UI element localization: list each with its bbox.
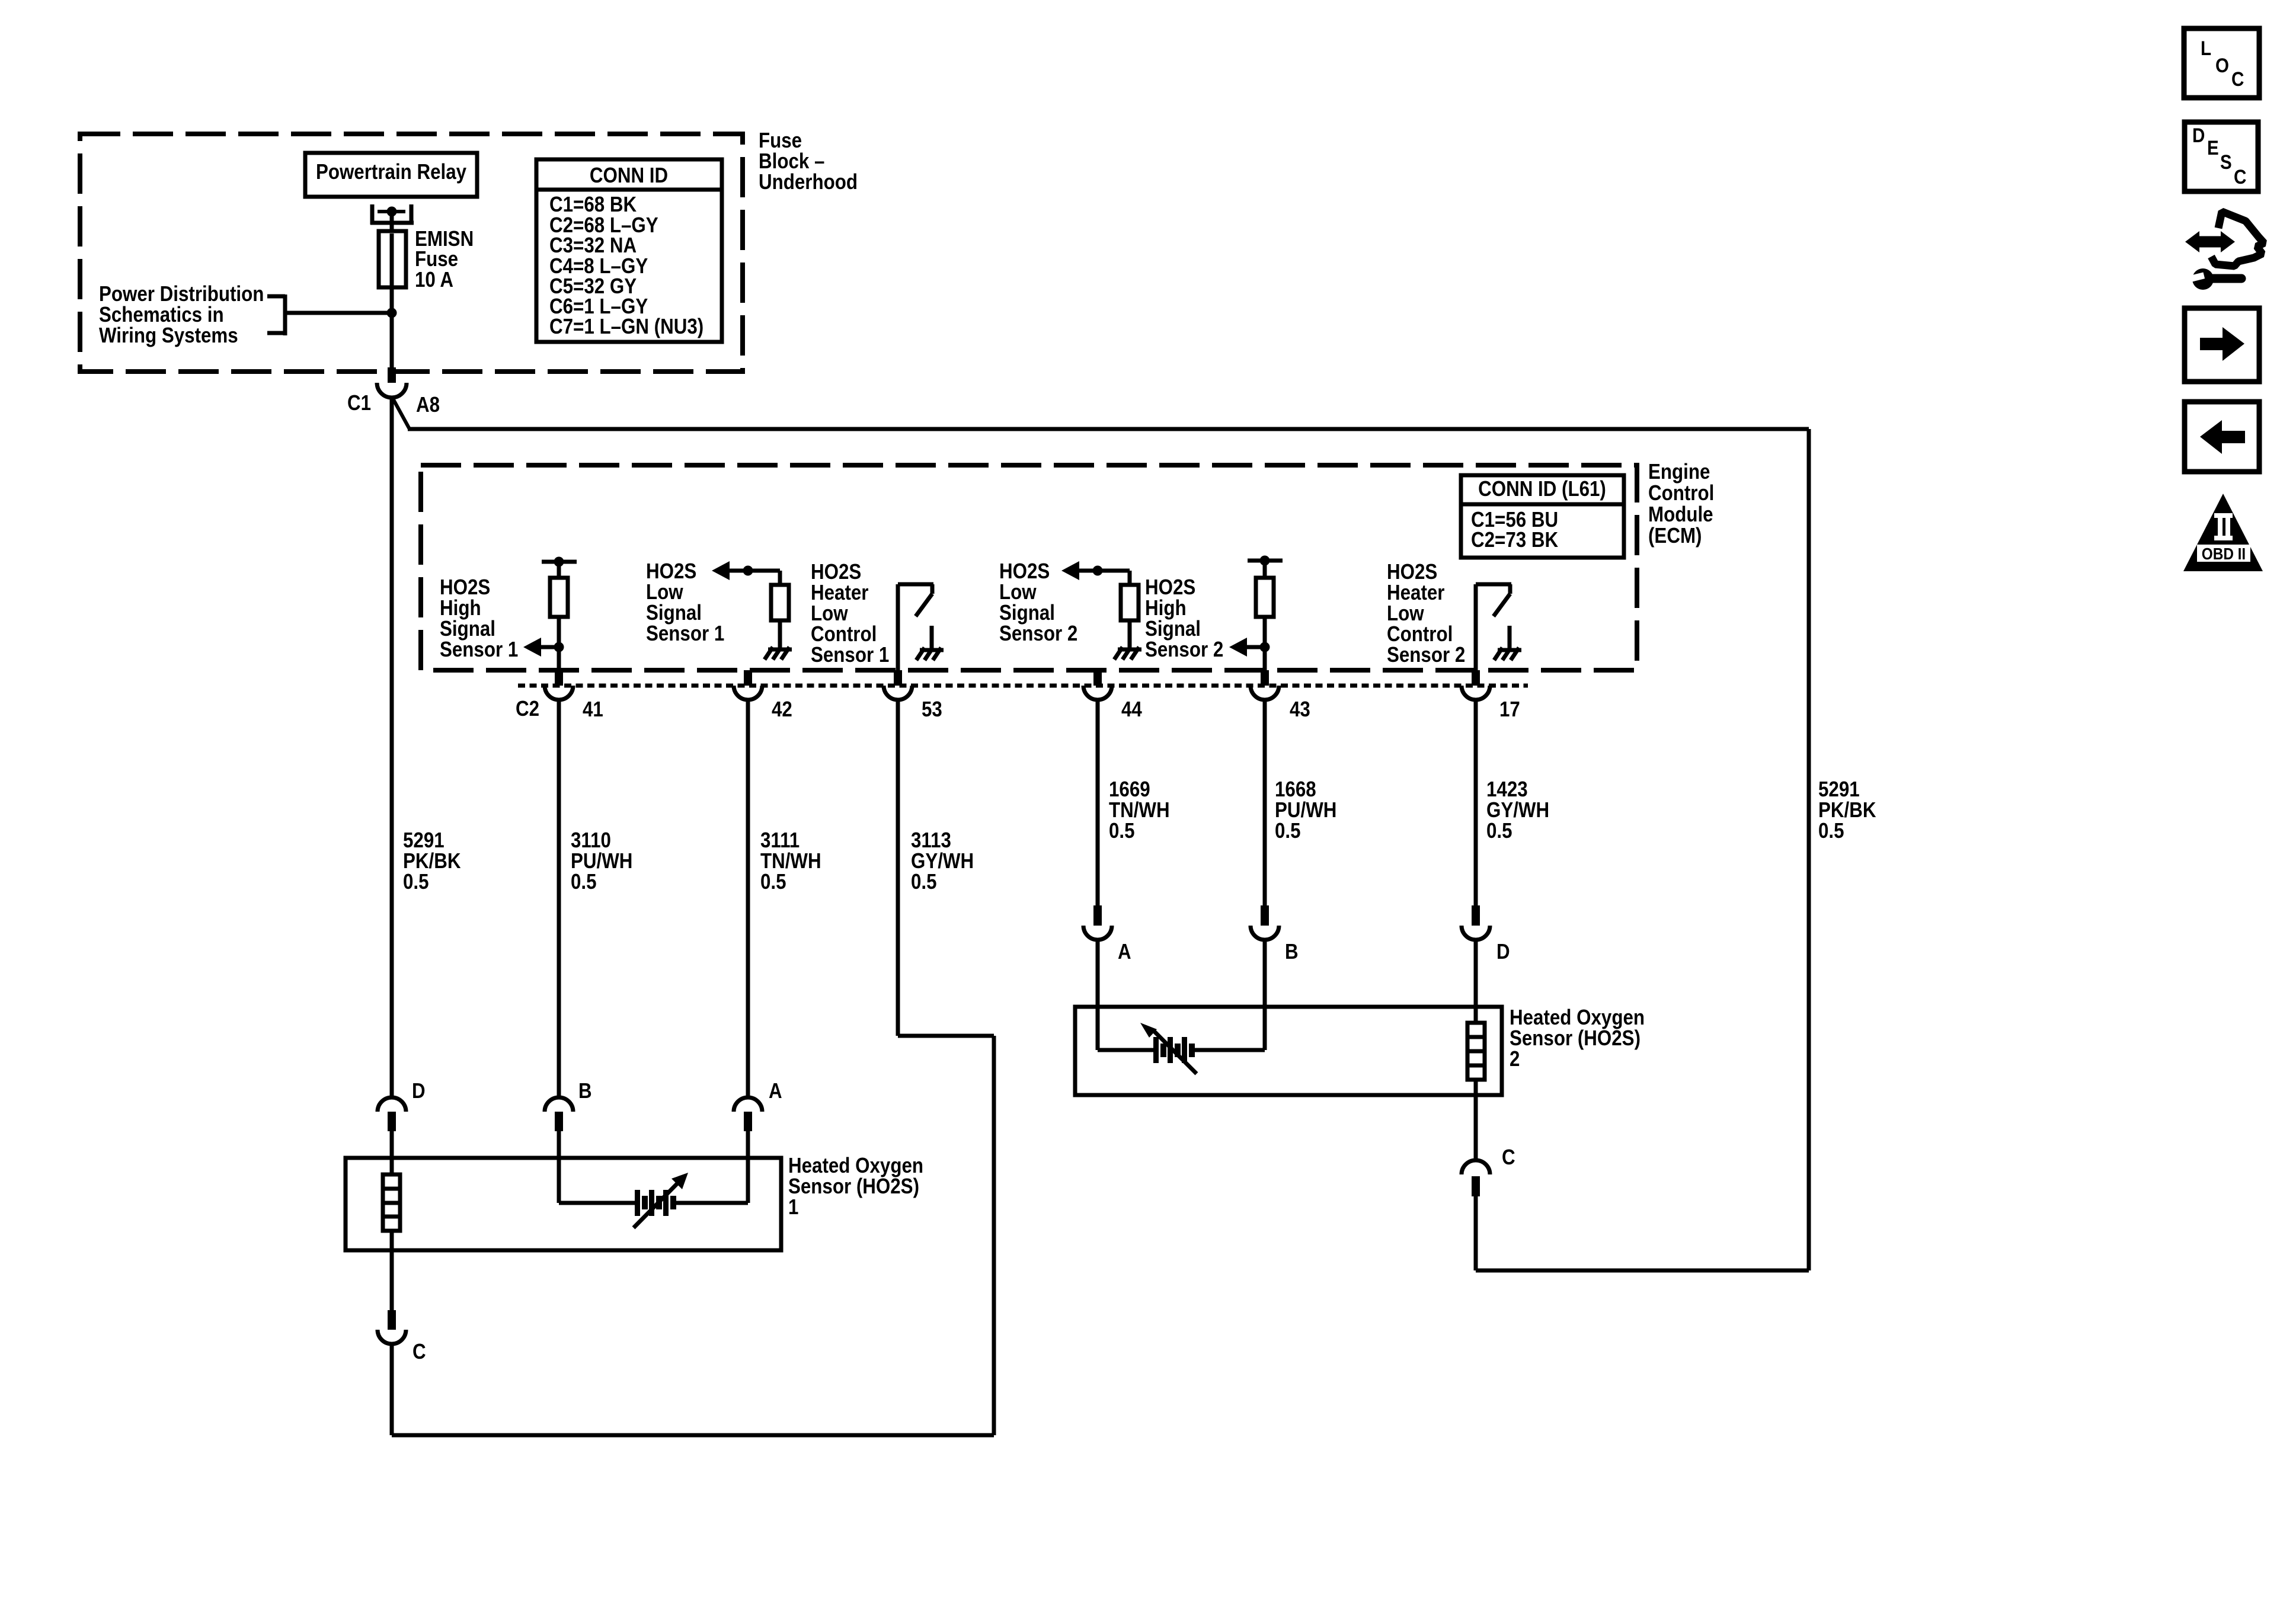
wire 3111 pin42 to connector A [746, 700, 750, 1097]
svg-text:OBD II: OBD II [2202, 545, 2246, 563]
svg-text:C: C [1502, 1145, 1515, 1169]
wire 5291 bottom right horizontal [1476, 1269, 1809, 1273]
label HO2S High Signal Sensor 2 [1145, 575, 1223, 661]
svg-text:C1: C1 [347, 391, 371, 415]
svg-text:D: D [412, 1078, 426, 1103]
svg-text:0.5: 0.5 [760, 869, 786, 894]
svg-text:Sensor 1: Sensor 1 [811, 642, 889, 667]
label HO2S Low Signal Sensor 2 [999, 559, 1077, 645]
ECM pin 42 connector [734, 670, 762, 700]
icon wrench with arrows [2185, 212, 2264, 290]
svg-text:Module: Module [1648, 502, 1713, 526]
wire 1423 pin17 to connector D [1474, 700, 1478, 907]
wire 5291 vertical to HO2S1 [390, 398, 394, 1097]
label Heated Oxygen Sensor (HO2S) 1 [788, 1153, 923, 1219]
label 1423 GY/WH 0.5 [1486, 777, 1549, 843]
wire 5291 top horizontal run [408, 427, 1809, 431]
connector B HO2S2 [1251, 905, 1279, 1007]
svg-text:L: L [2201, 37, 2211, 60]
svg-text:2: 2 [1510, 1046, 1520, 1071]
wire HO2S2 to connector C [1474, 1095, 1478, 1160]
svg-text:44: 44 [1121, 697, 1142, 721]
svg-text:Sensor (HO2S): Sensor (HO2S) [1510, 1026, 1641, 1050]
svg-text:Wiring Systems: Wiring Systems [99, 323, 238, 347]
wire 1669 pin44 to connector A [1096, 700, 1100, 907]
comp6 switch HO2S Heater Low Control Sensor 2 [1476, 584, 1511, 670]
svg-text:10 A: 10 A [415, 267, 453, 292]
heater element HO2S2 [1467, 1007, 1485, 1095]
ECM pin 53 connector [884, 670, 912, 700]
fuse block - underhood dashed box [80, 134, 743, 372]
svg-text:C: C [2234, 166, 2246, 188]
sensor element HO2S2 [1098, 1007, 1265, 1074]
ground comp2 [765, 647, 792, 660]
icon forward arrow box [2185, 308, 2259, 382]
ECM pin 41 connector [545, 670, 573, 700]
heater element HO2S1 [383, 1158, 400, 1250]
label HO2S High Signal Sensor 1 [440, 575, 518, 661]
svg-text:0.5: 0.5 [571, 869, 597, 894]
svg-text:Underhood: Underhood [759, 169, 858, 194]
svg-text:A: A [769, 1078, 782, 1103]
label Engine Control Module (ECM) [1648, 459, 1714, 548]
svg-text:CONN ID: CONN ID [590, 163, 668, 187]
svg-text:B: B [578, 1078, 592, 1103]
wire fuse to connector C1 [390, 287, 394, 369]
svg-text:A: A [1118, 939, 1131, 964]
svg-text:0.5: 0.5 [1109, 818, 1135, 843]
connector C HO2S2 [1462, 1160, 1490, 1270]
svg-text:1: 1 [788, 1195, 798, 1219]
relay pin bracket [370, 204, 414, 225]
svg-text:0.5: 0.5 [1275, 818, 1301, 843]
svg-text:42: 42 [772, 697, 792, 721]
icon LOC box [2184, 28, 2259, 98]
svg-text:Sensor 1: Sensor 1 [646, 621, 724, 645]
ECM pin 44 connector [1083, 670, 1112, 700]
connector C HO2S1 [378, 1310, 406, 1344]
connector D HO2S2 [1462, 905, 1490, 1007]
wire HO2S1 to connector C [390, 1250, 394, 1311]
junction dot [387, 308, 397, 318]
comp5 HO2S High Signal Sensor 2 [1229, 556, 1283, 671]
svg-text:43: 43 [1290, 697, 1310, 721]
svg-text:S: S [2220, 151, 2232, 174]
svg-text:Control: Control [1648, 481, 1714, 505]
svg-text:O: O [2215, 55, 2229, 77]
svg-text:Powertrain Relay: Powertrain Relay [316, 159, 466, 184]
label 3110 PU/WH 0.5 [571, 828, 632, 894]
svg-text:Engine: Engine [1648, 459, 1710, 484]
label 3111 TN/WH 0.5 [760, 828, 821, 894]
svg-text:(ECM): (ECM) [1648, 523, 1702, 548]
svg-text:Sensor 2: Sensor 2 [1145, 637, 1223, 661]
wire 3110 pin41 to connector B [557, 700, 561, 1097]
comp2 HO2S Low Signal Sensor 1 [712, 561, 789, 649]
ground comp6 [1494, 648, 1521, 660]
svg-text:C2: C2 [516, 696, 539, 721]
svg-text:41: 41 [583, 697, 603, 721]
svg-text:CONN ID (L61): CONN ID (L61) [1478, 476, 1606, 501]
heated oxygen sensor 1 box [346, 1158, 781, 1250]
svg-text:0.5: 0.5 [1486, 818, 1512, 843]
sensor element HO2S1 [559, 1158, 748, 1228]
label 1668 PU/WH 0.5 [1275, 777, 1336, 843]
connector C1 pin A8 [377, 367, 407, 398]
svg-text:C: C [412, 1339, 426, 1363]
label Fuse Block - Underhood [759, 128, 858, 194]
CONN ID table [536, 159, 722, 342]
label 1669 TN/WH 0.5 [1109, 777, 1170, 843]
wire 5291 right vertical run [1807, 429, 1811, 1270]
svg-text:A8: A8 [416, 392, 440, 417]
ground comp4 [1114, 647, 1141, 660]
ECM pin 43 connector [1251, 670, 1279, 700]
svg-text:17: 17 [1499, 697, 1520, 721]
icon DESC box [2185, 122, 2258, 191]
ground comp3 [916, 648, 944, 660]
wire power distribution feed [285, 311, 392, 315]
label HO2S Low Signal Sensor 1 [646, 559, 724, 645]
label 5291 PK/BK 0.5 left [403, 828, 461, 894]
label HO2S Heater Low Control Sensor 2 [1387, 559, 1465, 667]
svg-text:C7=1 L–GN (NU3): C7=1 L–GN (NU3) [549, 314, 703, 338]
ECM pin 17 connector [1462, 670, 1490, 700]
svg-text:Sensor 2: Sensor 2 [999, 621, 1077, 645]
wire relay to fuse [390, 212, 394, 232]
wire heater1 ground return [392, 1344, 994, 1435]
CONN ID (L61) table [1461, 475, 1624, 558]
connector B HO2S1 [545, 1097, 573, 1159]
svg-text:Sensor (HO2S): Sensor (HO2S) [788, 1174, 919, 1198]
label 3113 GY/WH 0.5 [911, 828, 974, 894]
connector D HO2S1 [378, 1097, 406, 1159]
engine control module dashed box [421, 465, 1637, 670]
connector A HO2S2 [1083, 905, 1112, 1007]
svg-text:C: C [2231, 68, 2244, 91]
powertrain relay box [305, 153, 477, 197]
svg-text:Sensor 1: Sensor 1 [440, 637, 518, 661]
ECM connector dotted line [518, 684, 1528, 688]
comp4 HO2S Low Signal Sensor 2 [1061, 561, 1139, 649]
comp1 HO2S High Signal Sensor 1 [523, 557, 577, 671]
svg-text:D: D [1496, 939, 1510, 964]
icon OBD II triangle [2183, 494, 2263, 571]
connector A HO2S1 [734, 1097, 762, 1159]
label Heated Oxygen Sensor (HO2S) 2 [1510, 1005, 1645, 1071]
svg-text:53: 53 [922, 697, 942, 721]
svg-text:D: D [2192, 124, 2205, 147]
wire diagonal from A8 [392, 398, 410, 429]
comp3 switch HO2S Heater Low Control Sensor 1 [898, 584, 933, 670]
svg-text:C2=73 BK: C2=73 BK [1471, 527, 1558, 552]
label EMISN Fuse 10 A [415, 226, 474, 292]
bracket to power distribution [267, 295, 285, 335]
label 5291 PK/BK 0.5 right [1818, 777, 1876, 843]
svg-text:0.5: 0.5 [403, 869, 429, 894]
svg-text:B: B [1285, 939, 1299, 964]
svg-text:0.5: 0.5 [1818, 818, 1844, 843]
label Power Distribution Schematics in Wiring Systems [99, 281, 264, 347]
label HO2S Heater Low Control Sensor 1 [811, 559, 889, 667]
svg-text:0.5: 0.5 [911, 869, 937, 894]
svg-text:E: E [2207, 137, 2219, 159]
wire 1668 pin43 to connector B [1263, 700, 1267, 907]
icon back arrow box [2185, 402, 2259, 472]
wire 3113 pin53 with jog [898, 700, 994, 1435]
svg-text:Sensor 2: Sensor 2 [1387, 642, 1465, 667]
heated oxygen sensor 2 box [1075, 1007, 1502, 1095]
fuse EMISN 10A [379, 231, 406, 287]
